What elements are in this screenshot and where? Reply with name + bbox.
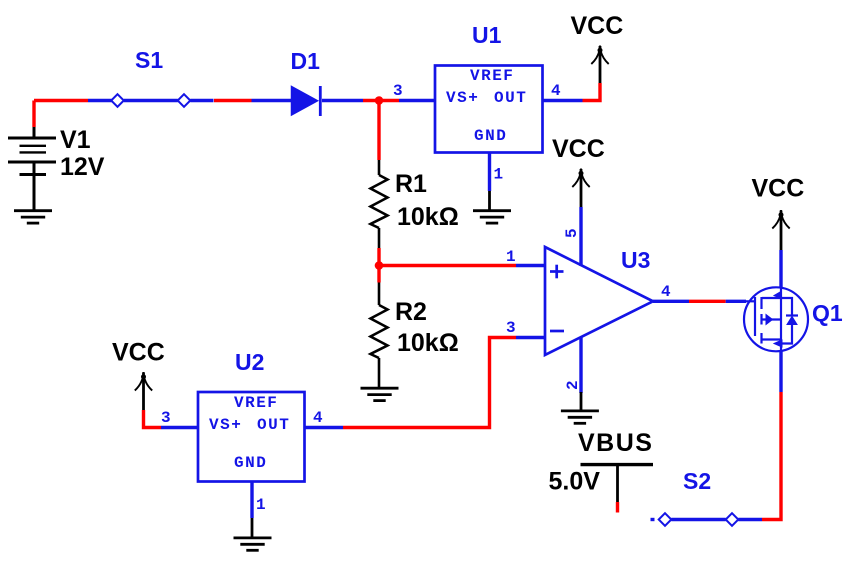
wire U1 pin 4 to VCC bbox=[542, 99, 583, 102]
svg-text:5.0V: 5.0V bbox=[549, 468, 601, 496]
svg-text:1: 1 bbox=[506, 248, 516, 266]
ground (U2) bbox=[234, 538, 272, 550]
wire VCC to Q1 drain bbox=[779, 250, 782, 288]
op-amp U3 bbox=[545, 247, 653, 355]
svg-text:GND: GND bbox=[474, 127, 507, 145]
svg-text:4: 4 bbox=[313, 409, 323, 427]
svg-text:5: 5 bbox=[563, 228, 581, 238]
ground (U3) bbox=[561, 411, 599, 423]
wire node B to R2 bbox=[377, 266, 380, 283]
svg-text:VCC: VCC bbox=[571, 12, 624, 40]
resistor R2 bbox=[371, 305, 388, 358]
ground (R2) bbox=[361, 388, 399, 400]
wire (red segment) bbox=[214, 99, 252, 102]
svg-text:R1: R1 bbox=[395, 170, 427, 198]
wire R2 to ground bbox=[378, 358, 381, 388]
svg-text:S1: S1 bbox=[135, 47, 163, 73]
svg-text:12V: 12V bbox=[60, 153, 105, 181]
svg-text:1: 1 bbox=[256, 496, 266, 514]
voltage reference U1 bbox=[435, 66, 543, 153]
svg-text:U1: U1 bbox=[472, 22, 502, 48]
wire VCC to U3 pin 5 bbox=[579, 207, 582, 266]
node A (junction dot) bbox=[375, 96, 384, 105]
svg-text:3: 3 bbox=[506, 319, 516, 337]
svg-text:VCC: VCC bbox=[112, 339, 165, 367]
voltage reference U2 bbox=[198, 392, 305, 482]
switch S1 bbox=[111, 94, 190, 107]
switch S2 bbox=[651, 513, 739, 526]
ground (below V1) bbox=[14, 211, 52, 223]
resistor R1 bbox=[371, 175, 388, 228]
wire R1 to node B bbox=[378, 228, 381, 248]
svg-text:1: 1 bbox=[494, 166, 504, 184]
VCC symbol (U1) bbox=[591, 46, 608, 65]
ground (U1) bbox=[473, 211, 511, 223]
wire D1 to node A bbox=[322, 99, 363, 102]
svg-text:4: 4 bbox=[551, 82, 561, 100]
svg-text:U3: U3 bbox=[621, 247, 650, 273]
wire U1 pin 1 to ground bbox=[488, 153, 491, 191]
svg-text:VREF: VREF bbox=[470, 67, 514, 85]
svg-text:3: 3 bbox=[161, 409, 171, 427]
battery V1 bbox=[8, 126, 56, 211]
svg-text:OUT: OUT bbox=[494, 89, 527, 107]
wire battery to S1 (red then blue) bbox=[32, 101, 35, 128]
svg-text:10kΩ: 10kΩ bbox=[397, 203, 459, 231]
wire node A to U1 pin 3 bbox=[399, 99, 435, 102]
svg-text:VBUS: VBUS bbox=[578, 429, 653, 457]
svg-text:VS+: VS+ bbox=[209, 416, 242, 434]
wire U3 pin 4 to Q1 gate bbox=[653, 300, 689, 303]
svg-text:V1: V1 bbox=[60, 126, 91, 154]
svg-text:S2: S2 bbox=[683, 468, 711, 494]
wire Q1 source to S2 bbox=[779, 351, 782, 392]
svg-text:10kΩ: 10kΩ bbox=[397, 329, 459, 357]
svg-text:VCC: VCC bbox=[752, 175, 805, 203]
diode D1 bbox=[292, 86, 321, 116]
svg-text:3: 3 bbox=[393, 82, 403, 100]
wire node B to U3 pin 1 bbox=[379, 264, 516, 267]
svg-text:VREF: VREF bbox=[234, 394, 278, 412]
svg-text:R2: R2 bbox=[395, 298, 427, 326]
svg-text:D1: D1 bbox=[291, 48, 321, 74]
wire U3 pin 2 to ground bbox=[579, 337, 582, 393]
transistor Q1 (NMOS) bbox=[744, 287, 808, 351]
wire U2 pin 4 to U3 pin 3 bbox=[304, 426, 343, 429]
wire bbox=[252, 99, 293, 102]
svg-text:GND: GND bbox=[234, 454, 267, 472]
node B (junction dot) bbox=[375, 261, 384, 270]
wire VCC to U2 pin 3 bbox=[144, 410, 162, 428]
wire U2 pin 1 to ground bbox=[250, 481, 253, 518]
svg-text:VS+: VS+ bbox=[446, 89, 479, 107]
svg-text:VCC: VCC bbox=[552, 135, 605, 163]
wire S1 to D1 bbox=[190, 99, 213, 102]
wire node A to R1 bbox=[377, 101, 380, 161]
svg-text:2: 2 bbox=[564, 380, 582, 390]
svg-text:U2: U2 bbox=[235, 349, 264, 375]
svg-text:Q1: Q1 bbox=[812, 300, 843, 326]
svg-text:4: 4 bbox=[661, 283, 671, 301]
svg-text:OUT: OUT bbox=[257, 416, 290, 434]
